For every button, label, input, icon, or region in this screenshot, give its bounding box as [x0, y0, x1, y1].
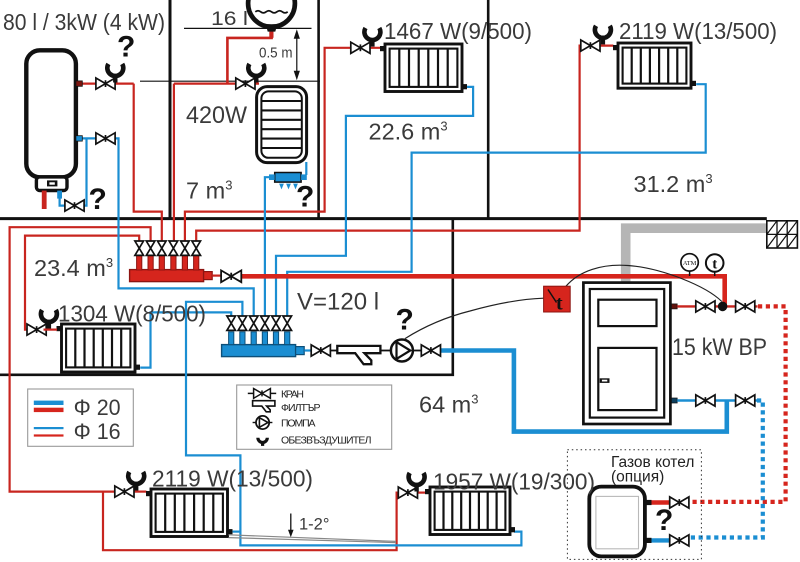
drain 420W	[269, 173, 307, 190]
manifold blue valve 1	[227, 316, 236, 330]
floor line between storeys	[0, 217, 767, 220]
gas boiler option box	[567, 450, 701, 560]
pipe blue boiler return	[677, 399, 757, 401]
wall 2	[317, 0, 320, 218]
datum line 0.5m level	[140, 80, 320, 82]
valve after pump	[421, 345, 440, 356]
pipe red branch to 1957W	[103, 492, 398, 551]
valve boiler return 1	[696, 395, 715, 406]
link filter	[330, 350, 338, 352]
svg-text:ОБЕЗВЪЗДУШИТЕЛ: ОБЕЗВЪЗДУШИТЕЛ	[281, 434, 372, 446]
boiler return stub	[671, 398, 678, 403]
pipe red 420W towel circuit riser	[174, 84, 259, 242]
pipe blue 1304W return	[140, 312, 231, 367]
lower room box	[0, 218, 453, 375]
manifold blue valve 5	[272, 316, 281, 330]
svg-text:(опция): (опция)	[611, 469, 664, 486]
expansion tank 16l	[248, 0, 295, 32]
wall 3	[487, 0, 490, 218]
valve heater cold	[96, 133, 115, 144]
valve 1304W	[27, 324, 46, 335]
manifold blue valve 2	[238, 316, 247, 330]
valve gas blue	[670, 535, 689, 546]
air vent 1467W	[364, 28, 380, 40]
manifold blue valve 3	[249, 316, 258, 330]
svg-text:0.5 m: 0.5 m	[259, 45, 293, 62]
svg-text:22.6 m3: 22.6 m3	[369, 119, 448, 145]
svg-text:?: ?	[117, 31, 135, 64]
manifold red valve 3	[158, 241, 167, 255]
pipe blue heater drain	[60, 139, 87, 205]
valve main supply	[221, 270, 241, 282]
svg-text:2119 W(13/500): 2119 W(13/500)	[619, 18, 777, 44]
air vent 2119W top	[595, 26, 611, 38]
legend symbols	[237, 385, 392, 449]
valve boiler return 2	[736, 395, 755, 406]
pump P1	[391, 340, 413, 362]
boiler supply stub	[671, 304, 678, 309]
manifold blue valve 4	[261, 316, 270, 330]
svg-text:ФИЛТЪР: ФИЛТЪР	[281, 402, 321, 414]
svg-text:ПОМПА: ПОМПА	[281, 418, 316, 430]
slope lines	[229, 535, 397, 543]
pipe blue dotted to gas boiler	[690, 401, 763, 538]
svg-text:64 m3: 64 m3	[419, 392, 478, 418]
svg-text:1467 W(9/500): 1467 W(9/500)	[384, 18, 532, 44]
gas boiler	[589, 487, 651, 557]
valve boiler supply 2	[736, 301, 755, 312]
valve heater drain	[65, 200, 84, 211]
main supply thick red	[240, 276, 725, 305]
pipe red 1304W valve link	[44, 329, 58, 331]
pipe blue manifold outlet	[304, 349, 312, 351]
manifold red valve 6	[192, 241, 201, 255]
main return thick blue	[438, 351, 727, 432]
svg-text:t: t	[556, 293, 563, 315]
gauge ATM	[681, 254, 698, 276]
valve 2119W bottom	[115, 486, 134, 497]
pipe red boiler supply	[677, 305, 757, 307]
radiator 1957W	[425, 487, 515, 535]
svg-text:?: ?	[89, 183, 107, 216]
pipe blue 1467W return	[276, 87, 473, 316]
svg-text:?: ?	[655, 504, 673, 537]
svg-text:2119 W(13/500): 2119 W(13/500)	[152, 466, 313, 492]
air vent 1304W	[41, 310, 57, 322]
svg-text:ATM: ATM	[683, 260, 697, 267]
wall 1	[169, 0, 172, 218]
svg-text:1-2°: 1-2°	[299, 516, 329, 534]
air vent 420W	[248, 64, 264, 76]
valve heater hot	[96, 78, 115, 89]
svg-text:Φ 16: Φ 16	[74, 419, 121, 444]
radiator 1304W	[57, 324, 141, 372]
pipe red heater outlet	[82, 82, 134, 84]
wire thermostat capillary	[566, 265, 722, 301]
filter	[337, 346, 380, 364]
junction node	[718, 302, 728, 312]
air vent 2119W bottom	[128, 472, 144, 484]
svg-text:16 l: 16 l	[211, 8, 248, 30]
boiler U1 15kW	[583, 283, 670, 424]
valve 2119W top	[581, 40, 600, 51]
manifold blue	[222, 332, 305, 357]
svg-text:23.4 m3: 23.4 m3	[34, 255, 113, 281]
dimension arrow 0.5m	[294, 29, 300, 80]
pipe blue heater cold water	[82, 138, 254, 315]
manifold blue valve 6	[283, 316, 292, 330]
svg-text:1304 W(8/500): 1304 W(8/500)	[58, 301, 206, 327]
pipe blue bottom radiators return	[186, 302, 521, 546]
datum line 16l	[184, 27, 312, 29]
slope arrow	[288, 514, 294, 538]
svg-text:31.2 m3: 31.2 m3	[634, 171, 713, 197]
pipe blue gas boiler	[652, 538, 670, 542]
link pump	[380, 350, 391, 352]
svg-text:Φ 20: Φ 20	[74, 395, 121, 420]
svg-text:80 l / 3kW (4 kW): 80 l / 3kW (4 kW)	[3, 9, 165, 35]
pipe red 1957W connection	[418, 492, 425, 494]
link valve	[413, 350, 423, 352]
pipe red dotted to gas boiler	[690, 306, 786, 502]
legend pipe sizes	[28, 389, 134, 446]
pipe blue 2119W bottom tap	[233, 530, 241, 532]
valve before filter	[311, 345, 330, 356]
chimney box	[767, 221, 798, 248]
pipe blue 2119W top return	[287, 84, 706, 315]
pipe red expansion tank branch	[227, 29, 273, 84]
air vent heater	[107, 64, 123, 76]
manifold red valve 2	[146, 241, 155, 255]
pipe red 1467W circuit	[185, 48, 381, 241]
radiator 2119W top	[613, 43, 696, 88]
pipe red 2119W bottom connection	[134, 491, 146, 493]
svg-text:?: ?	[296, 181, 314, 214]
thermostat t	[544, 286, 571, 314]
valve 1467W	[351, 42, 370, 53]
svg-text:КРАН: КРАН	[281, 388, 304, 400]
valve 420W	[236, 78, 255, 89]
manifold red valve 1	[135, 241, 144, 255]
chimney flue gray pipe	[626, 228, 767, 282]
svg-text:15 kW BP: 15 kW BP	[672, 334, 767, 361]
radiator 2119W bottom	[146, 489, 233, 537]
valve gas red	[670, 497, 689, 508]
gauge t	[706, 254, 724, 276]
manifold red	[130, 256, 213, 282]
air vent 1957W	[409, 473, 425, 485]
svg-text:420W: 420W	[186, 102, 248, 129]
svg-text:?: ?	[396, 304, 414, 337]
svg-text:V=120 l: V=120 l	[297, 289, 379, 316]
manifold red valve 4	[169, 241, 178, 255]
manifold red valve 5	[181, 241, 190, 255]
pipe red water heater circuit	[134, 84, 162, 242]
pipe red gas boiler	[652, 500, 670, 504]
valve 1957W	[398, 487, 417, 498]
pipe red manifold outlet	[212, 275, 222, 277]
towel radiator 420W	[257, 87, 307, 163]
svg-text:t: t	[712, 256, 717, 272]
svg-text:1957 W(19/300): 1957 W(19/300)	[433, 469, 595, 495]
pipe red circuit bottom radiators supply	[10, 227, 151, 491]
pipe red 2119W top circuit	[196, 46, 613, 242]
pipe blue 420W return	[265, 162, 306, 316]
wire pump to thermostat	[405, 298, 544, 338]
valve boiler supply 1	[696, 301, 715, 312]
pipe red circuit 1304W supply	[25, 236, 139, 330]
water heater 80l	[26, 50, 82, 209]
radiator 1467W	[380, 44, 467, 92]
